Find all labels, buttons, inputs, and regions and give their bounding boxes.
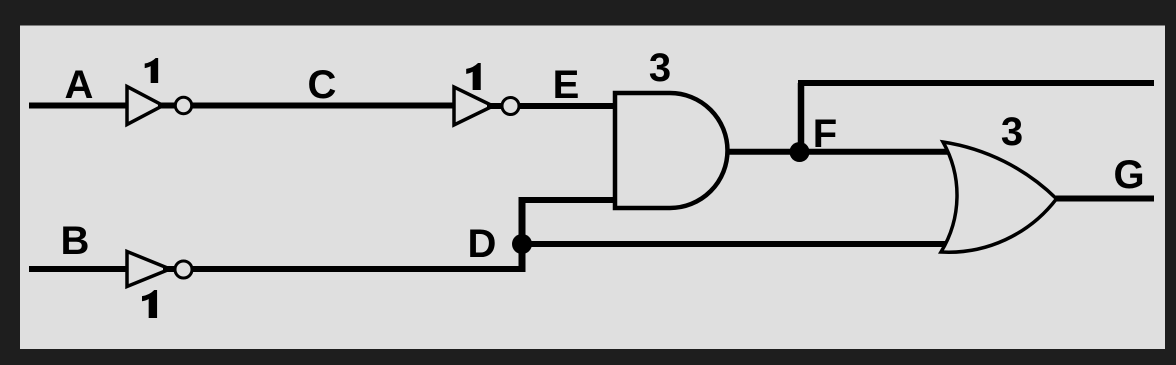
label A [65, 63, 94, 107]
wire C (inverter1 output to inverter2) [192, 103, 455, 109]
label 3 (OR gate value) [1001, 110, 1023, 154]
wire D riser (vertical) [519, 200, 526, 272]
node D junction dot [512, 234, 532, 254]
wire inverter1 apex to bubble [158, 103, 176, 109]
label F [813, 112, 837, 156]
label 1 (inverter 2 value) [466, 63, 481, 90]
wire D riser to AND gate bottom input [519, 197, 617, 203]
OR gate 3 [941, 142, 1057, 252]
wire inverter3 apex to bubble [163, 266, 176, 272]
svg-text:A: A [65, 63, 94, 107]
wire D (inverter3 output to riser) [192, 266, 526, 272]
label 1 (inverter 3 value) [142, 290, 157, 318]
inverter gate 3 bubble [175, 261, 192, 278]
inverter gate 1 bubble [175, 97, 191, 113]
label E [553, 63, 580, 107]
svg-text:D: D [468, 222, 497, 266]
wire AND output to OR gate top input (through node F) [728, 149, 950, 155]
label C [308, 63, 337, 107]
label G [1113, 153, 1144, 197]
wire G output [1056, 196, 1154, 202]
svg-text:F: F [813, 112, 837, 156]
svg-text:G: G [1113, 153, 1144, 197]
wire A input [29, 103, 127, 109]
inverter gate 2 bubble [502, 98, 519, 115]
svg-text:B: B [61, 219, 90, 263]
label B [61, 219, 90, 263]
wire inverter2 apex to bubble [487, 103, 504, 109]
AND gate 3 [615, 93, 727, 208]
svg-text:3: 3 [649, 46, 671, 90]
wire B input [29, 266, 127, 272]
svg-text:C: C [308, 63, 337, 107]
wire E (inverter2 output to AND gate) [520, 103, 616, 109]
label 3 (AND gate value) [649, 46, 671, 90]
node F junction dot [790, 142, 810, 162]
wire node F riser (vertical) [798, 83, 805, 152]
svg-text:3: 3 [1001, 110, 1023, 154]
svg-text:E: E [553, 63, 580, 107]
inverter gate 3 (B to D) triangle [127, 252, 170, 287]
label D [468, 222, 497, 266]
label 1 (inverter 1 value) [145, 58, 158, 83]
wire D to OR gate bottom input [522, 241, 950, 247]
inverter gate 1 (A to C) triangle [127, 87, 163, 125]
wire top right from F [798, 80, 1154, 86]
inverter gate 2 (C to E) triangle [454, 87, 493, 125]
